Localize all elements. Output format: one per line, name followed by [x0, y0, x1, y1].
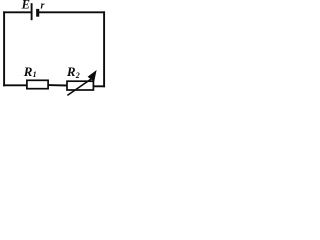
wire left	[3, 11, 5, 86]
wire bottom-left (corner to R1)	[3, 84, 27, 86]
battery E long plate (positive)	[31, 3, 33, 20]
wire bottom-middle (R1 to R2)	[48, 84, 68, 86]
label R1	[23, 64, 37, 79]
svg-text:R: R	[66, 64, 76, 79]
rheostat R2 arrow shaft	[67, 79, 91, 96]
svg-text:r: r	[41, 1, 45, 12]
svg-text:1: 1	[33, 70, 37, 79]
rheostat R2 arrowhead	[88, 70, 97, 82]
wire top-right (from battery negative plate to top-right corner)	[38, 11, 105, 13]
resistor R1 body	[27, 80, 48, 88]
svg-text:R: R	[23, 64, 33, 79]
svg-text:2: 2	[75, 71, 80, 80]
wire right	[103, 11, 105, 87]
wire bottom-right (R2 to bottom-right corner)	[93, 85, 105, 87]
label R2	[66, 64, 80, 80]
rheostat R2 body	[67, 81, 93, 90]
svg-text:E: E	[21, 0, 30, 12]
battery E short plate (negative)	[36, 9, 39, 17]
wire top-left (from top-left corner to battery positive plate)	[3, 11, 31, 13]
